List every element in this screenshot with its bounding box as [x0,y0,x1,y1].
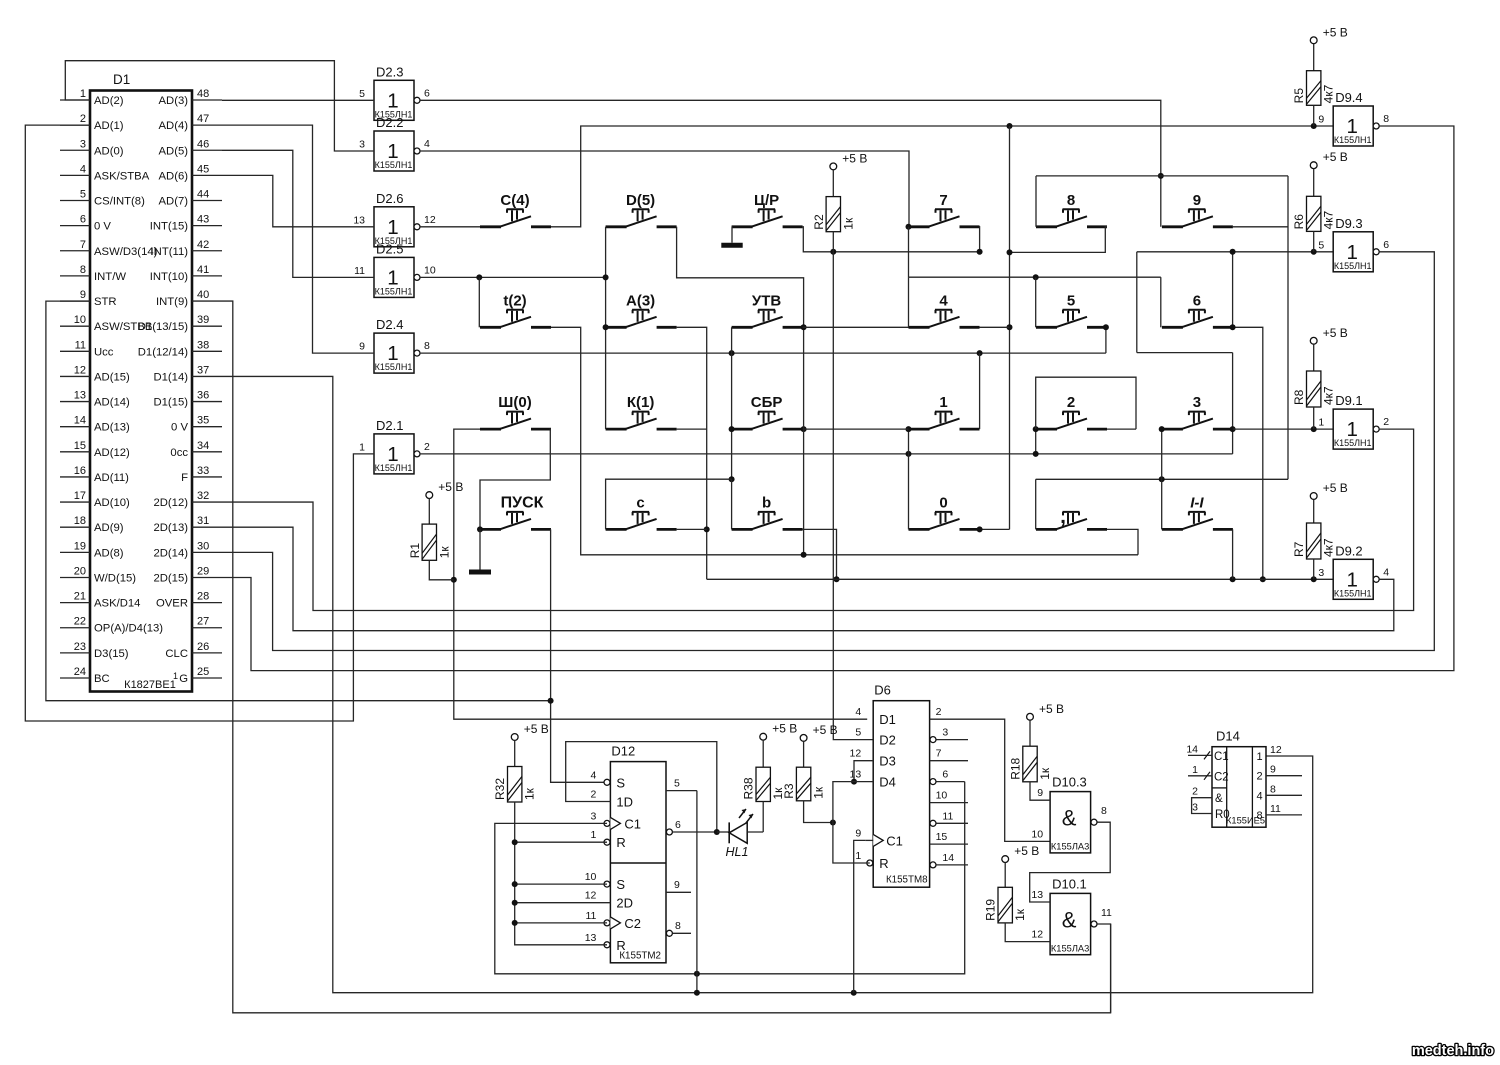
button ПУСК [480,494,551,529]
svg-text:10: 10 [1031,828,1043,840]
svg-text:W/D(15): W/D(15) [94,572,136,584]
junction [729,426,735,432]
wire D2.5 out row [420,276,606,278]
D1 pin 37 D1(14) [153,364,222,383]
junction [1159,476,1165,482]
junction [1033,274,1039,280]
svg-text:C1: C1 [624,816,641,831]
svg-text:3: 3 [942,727,948,739]
svg-text:9: 9 [1037,787,1043,799]
D1 pin 17 AD(10) [60,490,130,509]
svg-text:3: 3 [1192,802,1198,814]
wire R2 net to D6.D2 [833,252,873,740]
D1 pin 26 CLC [165,641,222,660]
button 6 [1162,292,1233,327]
wire Ш(0) right to ПУСК left [480,429,551,529]
svg-text:К155ЛН1: К155ЛН1 [1334,261,1372,271]
svg-text:2D(15): 2D(15) [153,572,188,584]
wire c-right [677,528,707,530]
D1 pin 18 AD(9) [60,515,124,534]
svg-text:2: 2 [1067,394,1075,411]
svg-text:6: 6 [675,819,681,831]
junction [1033,426,1039,432]
junction [603,274,609,280]
button C(4) [480,192,551,227]
svg-text:D9.1: D9.1 [1335,393,1362,408]
wire D6.C1 stub [865,839,873,841]
svg-text:1: 1 [855,850,861,862]
D1 pin 25 nc [173,666,222,685]
svg-text:+5 В: +5 В [1323,150,1348,164]
svg-text:medteh.info: medteh.info [1412,1043,1494,1059]
junction [1159,426,1165,432]
svg-text:OVER: OVER [156,598,188,610]
svg-text:К155ЛА3: К155ЛА3 [1051,842,1089,852]
svg-text:12: 12 [1031,929,1043,941]
D1 pin 13 AD(14) [60,390,130,409]
junction HL1 [714,829,720,835]
D1 pin 11 Ucc [60,339,114,358]
D12 pin 11 C2 [585,910,641,931]
wire D12.1D feedback [566,742,717,832]
D12 pin 2 1D [591,789,633,810]
wire col2 drive vertical [605,227,607,429]
IC D12 К155ТМ2 [610,744,666,963]
svg-text:9: 9 [674,879,680,891]
svg-text:4: 4 [855,706,861,718]
svg-text:34: 34 [197,440,209,452]
svg-text:4: 4 [1256,790,1262,802]
svg-text:42: 42 [197,239,209,251]
junction [801,426,807,432]
D12 pin 13 R [585,932,626,953]
svg-text:14: 14 [942,852,954,864]
svg-text:11: 11 [585,910,596,922]
svg-text:+5 В: +5 В [1014,844,1039,858]
svg-text:c: c [636,494,644,511]
D6 pin 11 [930,810,968,826]
junction [729,476,735,482]
svg-text:2: 2 [1256,771,1262,783]
D1 pin 38 D1(12/14) [138,339,222,358]
wire R2 top rail [832,232,834,252]
svg-text:D2.2: D2.2 [376,115,403,130]
svg-text:43: 43 [197,214,209,226]
resistor R5 [1292,25,1348,126]
ground ПУСК [469,529,491,572]
svg-text:К155ЛН1: К155ЛН1 [375,463,413,473]
svg-text:К1827ВЕ1: К1827ВЕ1 [124,679,176,691]
NAND D10.1 [984,702,1494,1059]
D12 pin 6 output [666,819,716,835]
svg-text:5: 5 [1318,239,1324,251]
wire R1 bottom [429,560,454,580]
svg-text:33: 33 [197,465,209,477]
svg-text:b: b [762,494,771,511]
wire R38 bottom [762,802,764,833]
IC D1 К1827ВЕ1 [90,72,192,692]
D1 pin 9 STR [60,289,117,308]
wire 2-left drive [1035,429,1037,454]
svg-text:8: 8 [80,264,86,276]
svg-text:6: 6 [1383,239,1389,251]
junction [1260,576,1266,582]
wire D6.C1 feed [854,840,866,992]
wire D10.3 out to D10.1 in [1030,822,1111,902]
resistor R38 [742,722,798,802]
svg-text:2D(12): 2D(12) [153,497,188,509]
svg-text:11: 11 [942,810,953,822]
svg-text:4: 4 [80,163,86,175]
svg-text:11: 11 [1101,907,1112,919]
button 7 [909,192,980,227]
D12 pin 5 stub [666,778,697,791]
svg-text:STR: STR [94,296,117,308]
svg-text:25: 25 [197,666,209,678]
D1 pin 20 W/D(15) [60,565,136,584]
svg-text:6: 6 [424,87,430,99]
svg-text:C1: C1 [886,833,903,848]
svg-text:AD(14): AD(14) [94,397,130,409]
D12 pin 10 S [585,871,626,892]
svg-text:36: 36 [197,390,209,402]
svg-text:D1(13/15): D1(13/15) [138,321,188,333]
wire D2.1 out rail [420,453,1233,455]
inverter D2.2 [359,115,430,171]
wire D6.D3 step [854,761,873,782]
wire D1.37 rail to D14.12 [222,376,1313,992]
D1 pin 43 INT(15) [150,214,222,233]
svg-text:D12: D12 [611,744,635,759]
button СБР [732,394,803,429]
D6 pin 1 R [855,850,888,871]
svg-text:22: 22 [74,616,86,628]
svg-text:+5 В: +5 В [1039,702,1064,716]
button Ц/Р [732,192,803,227]
button I-I [1162,494,1233,529]
D1 pin 32 2D(12) [153,490,222,509]
svg-text:30: 30 [197,540,209,552]
wire Ц/Р right [803,227,980,252]
svg-text:37: 37 [197,364,209,376]
svg-text:t(2): t(2) [503,292,526,309]
wire 3-right drop [1232,353,1234,454]
junction [977,350,983,356]
wire D9.3 out to D1.30 [222,252,1434,651]
D1 pin 44 AD(7) [159,189,223,208]
wire D12.5 down [696,791,698,993]
button Ш(0) [480,394,551,429]
button 0 [909,494,980,529]
D1 pin 33 F [181,465,222,484]
svg-text:D2.5: D2.5 [376,241,403,256]
svg-text:15: 15 [936,831,948,843]
wire D1.2 to D2.1 input [25,125,374,721]
junction [1033,451,1039,457]
svg-text:D6: D6 [874,683,891,698]
svg-text:AD(5): AD(5) [159,145,189,157]
svg-text:39: 39 [197,314,209,326]
resistor R6 [1292,150,1348,252]
wire 2-right [1107,428,1136,430]
svg-text:4к7: 4к7 [1322,84,1336,103]
svg-text:7: 7 [936,748,942,760]
svg-text:A(3): A(3) [626,292,655,309]
resistor R2 [812,151,868,231]
svg-text:D3(15): D3(15) [94,648,129,660]
D1 pin 42 INT(11) [151,239,222,258]
svg-text:Ц/Р: Ц/Р [754,192,779,209]
svg-text:СБР: СБР [751,394,783,411]
svg-text:К155ЛН1: К155ЛН1 [1334,438,1372,448]
wire I-I right [1232,529,1234,579]
svg-text:2: 2 [424,441,430,453]
D12 pin 8 stub [666,920,691,936]
svg-text:3: 3 [80,138,86,150]
D1 pin 40 INT(9) [156,289,222,308]
svg-text:31: 31 [197,515,209,527]
svg-text:1: 1 [939,394,947,411]
inverter D2.1 [359,418,430,474]
svg-text:2D(14): 2D(14) [153,547,188,559]
wire 4-left drive [908,277,910,327]
svg-text:5: 5 [855,727,861,739]
svg-text:12: 12 [74,364,86,376]
wire 8-right step [1010,227,1108,253]
junction STR [548,698,554,704]
wire 6-left drive [1160,277,1162,327]
svg-text:21: 21 [74,591,86,603]
wire D6.2 to D10.3 pin10 [930,719,1051,841]
svg-text:D1(15): D1(15) [153,397,188,409]
wire row D sense rail [707,578,1333,580]
D1 pin 10 ASW/STBB [60,314,152,333]
NAND D10.3 [984,702,1494,1059]
wire 8-left drive [1035,176,1037,227]
button 3 [1162,394,1233,429]
svg-text:AD(6): AD(6) [159,170,189,182]
svg-text:HL1: HL1 [726,845,749,859]
wire t(2) drive [478,277,480,327]
svg-text:&: & [1062,907,1077,932]
svg-text:D9.4: D9.4 [1335,90,1362,105]
svg-text:1: 1 [173,671,178,681]
D14 pin 2 [1192,786,1223,806]
inverter D9.1 [1318,393,1389,449]
svg-text:+5 В: +5 В [842,151,867,165]
svg-text:1к: 1к [841,217,855,230]
D1 pin 39 D1(13/15) [138,314,222,333]
wire A(3)/c right column [677,327,707,579]
D14 pins 2-3 tie [1192,798,1212,814]
svg-text:D10.3: D10.3 [1052,775,1087,790]
svg-text:INT(15): INT(15) [150,221,189,233]
D1 pin 46 AD(5) [159,138,223,157]
svg-text:0: 0 [939,494,947,511]
svg-text:10: 10 [585,871,597,883]
resistor R3 [782,723,838,801]
svg-text:2D(13): 2D(13) [153,522,188,534]
IC D6 К155ТМ8 [873,683,929,888]
svg-text:5: 5 [674,778,680,790]
svg-text:1: 1 [1256,751,1262,763]
svg-text:C1: C1 [1214,751,1229,763]
svg-text:32: 32 [197,490,209,502]
wire УТВ right [803,326,804,328]
svg-text:8: 8 [1270,783,1276,795]
D14 pin 14 [1186,743,1228,763]
svg-text:28: 28 [197,591,209,603]
svg-text:6: 6 [80,214,86,226]
svg-text:F: F [181,472,188,484]
junction [801,552,807,558]
junction [694,990,700,996]
wire frame down to row C frame [1287,176,1289,479]
wire sense column S4 [1009,126,1011,529]
svg-text:2: 2 [1192,786,1198,798]
D14 pin 8 [1256,783,1302,802]
D1 pin 12 AD(15) [60,364,130,383]
junction R7 [1311,576,1317,582]
button К(1) [606,394,677,429]
svg-text:19: 19 [74,540,86,552]
button comma [1036,505,1107,530]
junction R1 [451,577,457,583]
svg-text:8: 8 [1256,810,1262,822]
wire 5-left drive [1035,277,1037,327]
svg-text:AD(11): AD(11) [94,472,129,484]
svg-text:D9.2: D9.2 [1335,543,1362,558]
button 5 [1036,292,1107,327]
wire D1.47 to D2.4 input [222,125,374,353]
svg-text:1к: 1к [437,546,451,559]
svg-text:,: , [1060,505,1066,528]
svg-text:12: 12 [1270,744,1282,756]
D1 pin 28 OVER [156,591,222,610]
button 2 [1036,394,1107,429]
resistor R32 [493,722,549,802]
D1 pin 1 AD(2) [60,88,124,107]
svg-text:23: 23 [74,641,86,653]
wire 4-right [980,326,1010,328]
inverter D9.4 [1318,90,1389,146]
svg-text:2: 2 [1383,416,1389,428]
svg-text:INT(10): INT(10) [150,271,189,283]
button b [732,494,803,529]
IC D14 К155ИЕ5 [1212,729,1266,828]
svg-text:3: 3 [591,810,597,822]
svg-text:11: 11 [1270,803,1281,815]
D6 pin 7 [930,748,968,761]
svg-text:AD(3): AD(3) [159,95,189,107]
D1 pin 27 nc [192,616,222,628]
svg-text:R38: R38 [742,777,756,799]
svg-text:9: 9 [855,827,861,839]
svg-text:7: 7 [80,239,86,251]
svg-text:G: G [179,673,188,685]
svg-text:1: 1 [1192,764,1198,776]
button t(2) [480,292,551,327]
wire row C frame [1036,478,1288,480]
junction [729,350,735,356]
wire 6-right riser [1232,252,1234,327]
D6 pin 12 D3 [850,748,896,769]
button 9 [1162,192,1233,227]
junction c-right [704,526,710,532]
svg-text:УТВ: УТВ [752,292,781,309]
svg-text:5: 5 [1067,292,1075,309]
wire branch to 1-right [979,353,981,429]
svg-text:D(5): D(5) [626,192,655,209]
svg-text:К155ЛА3: К155ЛА3 [1051,943,1089,953]
junction [1158,173,1164,179]
resistor R18 [1009,702,1065,782]
junction [977,249,983,255]
wire D2.3 out rail [420,100,1161,227]
svg-text:15: 15 [74,440,86,452]
wire R3 bottom [804,801,833,823]
svg-text:AD(7): AD(7) [159,196,189,208]
D1 pin 5 CS/INT(8) [60,189,145,208]
junction 0-right [977,526,983,532]
svg-text:S: S [616,775,625,790]
D1 pin 30 2D(14) [153,540,222,559]
D6 pin 4 D1 [855,706,895,727]
svg-text:AD(13): AD(13) [94,422,130,434]
svg-text:INT(11): INT(11) [151,246,189,258]
svg-text:I-I: I-I [1190,494,1204,511]
svg-text:+5 В: +5 В [813,723,838,737]
wire D1.48 to D2.3 input [222,99,374,101]
svg-text:7: 7 [939,192,947,209]
svg-text:2: 2 [936,706,942,718]
svg-text:10: 10 [936,790,948,802]
wire 1/0 drive [908,429,910,529]
wire УТВ right ext [804,326,909,328]
svg-text:C2: C2 [1214,771,1229,783]
wire t(2) right rail [551,327,1138,555]
wire 3 / I-I drive [1161,429,1163,529]
svg-text:8: 8 [675,920,681,932]
D1 pin 22 OP(A)/D4(13) [60,616,163,635]
D14 pin 1 [1188,764,1229,784]
D12 pin 9 stub [666,879,691,892]
wire 7-right [979,227,981,252]
button УТВ [732,292,803,327]
svg-text:16: 16 [74,465,86,477]
svg-text:9: 9 [1318,114,1324,126]
D6 pin 6 [930,769,948,785]
D1 pin 48 AD(3) [159,88,223,107]
wire D6.D4 to R [833,782,873,863]
svg-text:AD(4): AD(4) [159,120,189,132]
svg-text:R: R [616,938,625,953]
wire D2.2 out to 7 [420,151,909,227]
D1 pin 34 0cc [170,440,222,459]
wire R18 to pin9 [1030,782,1050,800]
svg-text:9: 9 [1270,764,1276,776]
junction [1007,249,1013,255]
wire D6.6 down [936,781,964,783]
svg-text:Ш(0): Ш(0) [498,394,531,411]
wire comma right [1107,529,1138,554]
svg-text:1к: 1к [1038,767,1052,780]
svg-text:2: 2 [591,789,597,801]
D10.3 output pin 8 [1101,805,1107,817]
svg-text:Ucc: Ucc [94,346,114,358]
svg-text:1к: 1к [523,787,537,800]
svg-text:4: 4 [591,769,597,781]
